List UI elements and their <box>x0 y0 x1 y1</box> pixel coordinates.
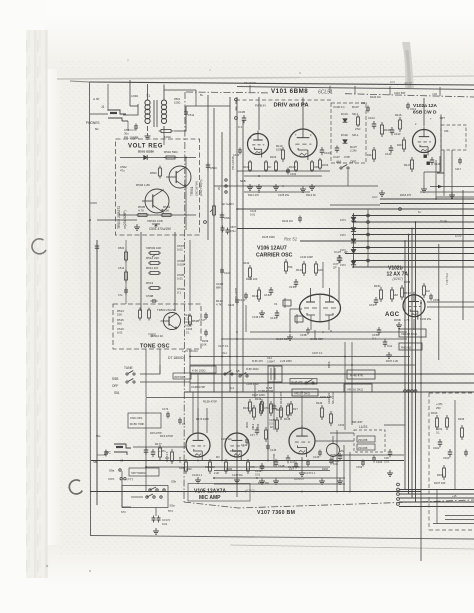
label C137 2P <box>334 250 348 254</box>
capacitor C157 <box>369 297 378 307</box>
wire top join t1 <box>195 90 197 106</box>
wire v107 down <box>301 457 303 470</box>
svg-text:C15B: C15B <box>433 298 440 302</box>
switch S51b <box>126 381 128 383</box>
ladder terminals <box>367 208 402 262</box>
ground v107 <box>301 470 303 473</box>
svg-text:56K: 56K <box>288 265 293 269</box>
resistor R114 <box>367 147 376 162</box>
svg-text:J1: J1 <box>101 105 105 109</box>
top scan smudge line <box>57 68 474 79</box>
capacitor P1 <box>184 110 195 118</box>
tube V106 <box>300 288 341 330</box>
label V106 12AU7 <box>256 246 293 259</box>
capacitor mid gap <box>299 216 301 219</box>
wire V101b plate up <box>302 98 304 127</box>
wire bundle h1 <box>399 489 474 491</box>
capacitor C131 <box>239 293 248 303</box>
wire y433 row <box>330 432 354 434</box>
tube V102a <box>413 130 436 153</box>
wire L join <box>436 490 438 524</box>
terminal circles bundle top <box>404 390 417 393</box>
ground v105b <box>236 477 238 480</box>
capacitor M1 <box>104 450 108 457</box>
wire vertical x230 <box>229 97 231 392</box>
ground V102a <box>423 186 425 189</box>
resistor R162 <box>261 399 270 414</box>
label R515 <box>117 318 124 326</box>
capacitor C520 <box>95 243 100 251</box>
wire jack to tube <box>133 446 186 448</box>
label G1 <box>186 327 193 335</box>
ground V101a <box>258 184 260 187</box>
resistor ladder-left 1 <box>118 246 128 263</box>
label C506 <box>177 259 185 267</box>
svg-text:DT 1800Ω: DT 1800Ω <box>168 356 184 360</box>
svg-text:TUNE: TUNE <box>124 366 133 370</box>
tube V107 <box>289 428 315 454</box>
resistor R141 <box>280 405 283 420</box>
wire mic vert x207 <box>206 408 208 433</box>
wire bottom bus 4 <box>91 491 421 493</box>
ground I2 <box>275 478 277 481</box>
wire ladder left rail <box>140 232 142 311</box>
label mid gap 1 <box>250 209 257 217</box>
wire sect bus 5 <box>184 391 474 393</box>
svg-text:CARRIER OSC: CARRIER OSC <box>256 253 293 259</box>
wire bottom bus 2 <box>146 466 330 468</box>
svg-text:C503: C503 <box>210 166 217 170</box>
box VR102 5KB <box>292 389 318 396</box>
box VR106 5KB <box>399 329 426 337</box>
wire carrier down 1 <box>344 342 346 430</box>
label V105 12AX7A MIC AMP <box>194 489 226 502</box>
wire t1 down <box>163 131 165 145</box>
capacitor C171 <box>144 447 167 455</box>
wire agc bus 5 <box>352 221 474 223</box>
label right small <box>436 402 442 410</box>
capacitor I2 <box>266 444 277 453</box>
label R514 <box>117 309 124 317</box>
capacitor tone right 2 <box>204 330 208 337</box>
ground A3 <box>311 184 313 187</box>
wire jack to T1 <box>123 104 138 115</box>
wire s3 area <box>131 496 143 498</box>
ground I1 <box>261 478 263 481</box>
resistor R106 <box>319 158 329 170</box>
wire sect bus 4 <box>190 382 474 384</box>
switch H2 <box>305 382 307 384</box>
schematic border bottom dash-dot <box>184 500 474 508</box>
ground T1 <box>147 133 149 136</box>
node v101a <box>258 175 260 177</box>
switch S51a <box>126 373 128 375</box>
capacitor C138 <box>333 255 342 270</box>
resistor R117 <box>404 157 414 172</box>
wire carrier bus 2 <box>222 338 407 340</box>
page top border line <box>70 81 474 85</box>
box VR101 5KB <box>344 384 372 392</box>
label I row <box>252 393 291 421</box>
capacitor C158 <box>429 294 440 303</box>
wire v102a right 1 <box>443 150 445 196</box>
scan speck 4 <box>209 69 211 71</box>
resistor R517 <box>148 308 150 311</box>
label C502 <box>120 165 127 173</box>
resistor R171 <box>159 445 161 448</box>
capacitor C3a <box>152 516 171 523</box>
wire phones up <box>90 113 108 115</box>
capacitor C147 <box>286 455 296 464</box>
label V101 pins <box>250 134 312 140</box>
page bottom border line <box>91 536 474 540</box>
wire br box <box>454 400 456 490</box>
label R504 1.5K <box>163 205 171 213</box>
resistor R551 120ohm <box>159 130 174 140</box>
svg-text:470u: 470u <box>230 230 236 233</box>
resistor R152 <box>391 287 399 302</box>
svg-text:50u: 50u <box>96 434 101 438</box>
wire v102a cath bus <box>424 156 440 172</box>
wire vreg mid <box>119 214 196 216</box>
label mid gap 2 <box>282 219 293 223</box>
wire v107 col 1 <box>336 430 338 491</box>
svg-text:C123: C123 <box>250 209 257 213</box>
tube V102b <box>403 295 425 317</box>
top border stubs <box>250 85 440 96</box>
label VR5 500K <box>129 468 159 476</box>
wire agc bus 2 <box>380 203 474 205</box>
label R505 4.7K <box>138 205 146 213</box>
resistor R103 <box>270 155 278 172</box>
resistor R154 <box>423 283 430 298</box>
svg-text:C122: C122 <box>228 303 235 307</box>
wire box to c3 <box>155 508 157 517</box>
box K-56 100 <box>190 366 216 373</box>
svg-text:OFF: OFF <box>112 384 118 388</box>
mic amp label box <box>188 484 250 502</box>
bottom faint fold line <box>230 545 474 549</box>
node A1 <box>258 191 260 193</box>
ground A2 <box>275 184 277 187</box>
terminal x236 a <box>235 98 238 101</box>
resistor R110 <box>276 144 285 162</box>
wire right h2 <box>427 306 474 308</box>
svg-text:R124 1M: R124 1M <box>282 219 293 223</box>
wire v101 mid2 <box>237 170 330 172</box>
tube V101b <box>289 129 317 157</box>
wire vertical x130 top <box>129 80 131 106</box>
node F <box>213 331 238 366</box>
capacitor C102 <box>286 168 297 177</box>
svg-text:Rcc 51: Rcc 51 <box>284 237 297 242</box>
wire right low 2 <box>445 519 474 521</box>
label R107 2.2M <box>350 145 357 153</box>
wire v106 top <box>322 262 324 288</box>
svg-text:SSB: SSB <box>112 377 118 381</box>
svg-text:to SP: to SP <box>93 97 100 101</box>
wire vox v2 <box>273 366 275 430</box>
wire v102a down <box>423 172 425 186</box>
resistor R161 <box>243 399 252 414</box>
resistor R181 <box>179 459 188 474</box>
wire switch runs 2 <box>140 382 190 383</box>
resistor R151 <box>374 284 383 302</box>
wire v101 mid <box>244 175 322 177</box>
capacitor V107 c2 <box>306 460 310 467</box>
svg-text:R167 33K: R167 33K <box>434 481 446 485</box>
label V102b 12AX7A <box>387 266 409 278</box>
label TR501 2SC367 <box>190 179 203 196</box>
capacitor ladder-left 3 <box>118 288 128 298</box>
resistor R163 <box>431 411 439 430</box>
switch H1 <box>224 373 226 375</box>
wire tone to bus 3 <box>189 349 191 392</box>
filter box L1 <box>354 430 385 452</box>
page left border wire <box>90 82 91 536</box>
jack J3 mic <box>114 444 131 455</box>
wire mic down <box>122 471 131 507</box>
resistor R164 <box>446 415 449 430</box>
label row under V105b <box>226 468 249 477</box>
wire agc bus 12 <box>352 266 474 268</box>
resistor R511 <box>146 266 161 275</box>
component blobs v102a <box>424 155 430 165</box>
ground D1 <box>289 334 291 337</box>
wire vertical x463 <box>462 190 464 320</box>
wire x255 mid <box>254 383 256 397</box>
junction dots row <box>213 460 351 493</box>
terminal circles bundle bottom <box>397 483 400 505</box>
wire vox h <box>240 391 292 393</box>
resistor I1 <box>253 405 256 420</box>
box R-46 47K b <box>290 379 317 385</box>
ground B1 <box>381 190 383 193</box>
pot AF GAIN terminals <box>218 179 227 193</box>
label R1 <box>340 219 346 267</box>
wire agc bus 10 <box>345 253 474 255</box>
capacitor C151 <box>384 449 392 464</box>
svg-text:B+: B+ <box>200 93 204 97</box>
punch hole mark upper <box>32 239 46 254</box>
capacitor F1 <box>220 268 231 276</box>
label G2 <box>202 339 209 347</box>
svg-text:T1: T1 <box>146 94 150 98</box>
svg-text:10K: 10K <box>318 268 323 272</box>
ground E1 <box>398 322 400 325</box>
wire v106 to bus <box>314 330 316 339</box>
tube V101a <box>248 134 269 155</box>
resistor R146 <box>265 427 268 442</box>
label vox r <box>246 367 259 386</box>
wire v102a plate col <box>437 115 445 174</box>
wire right seg 1 <box>430 186 474 188</box>
capacitor C116 <box>430 157 441 166</box>
resistor R516 <box>139 308 141 311</box>
label L row <box>436 417 465 435</box>
capacitor N1 <box>162 407 170 419</box>
label T1 <box>131 94 150 98</box>
ground c3 <box>155 528 157 531</box>
capacitor C108 <box>238 110 246 129</box>
svg-text:R136 22K: R136 22K <box>246 277 258 281</box>
schematic border left dash-dot <box>184 92 185 502</box>
svg-text:PB-1984B: PB-1984B <box>244 81 256 85</box>
capacitor V107 c1 <box>289 462 298 472</box>
wire v107 col 3 <box>349 452 351 491</box>
resistor R153 <box>401 285 412 300</box>
capacitor C148 <box>274 459 285 468</box>
wire agc bus 3 <box>237 208 474 210</box>
wire v106 left <box>290 309 302 332</box>
potentiometer VR503 <box>146 246 161 257</box>
label C168 <box>184 320 193 328</box>
wire mic link <box>97 454 106 456</box>
dashed box bottom right <box>429 393 474 530</box>
wire sect bus 2 <box>190 364 415 366</box>
ground J1 <box>321 478 323 481</box>
diode ladder D103-D107 <box>351 217 356 265</box>
resistor R513 <box>146 281 161 290</box>
capacitor C162 <box>433 439 442 450</box>
capacitor tone right 1 <box>199 313 208 323</box>
label S9a <box>109 469 121 473</box>
svg-text:X1: X1 <box>274 302 278 306</box>
resistor R142 <box>270 401 278 416</box>
capacitor C41 <box>383 339 393 348</box>
wire vreg left down <box>97 219 137 221</box>
wire x439 <box>438 244 440 360</box>
wire x190 ladder <box>189 240 191 311</box>
wire left rail a <box>96 240 98 505</box>
transistor TR503 tone osc <box>164 313 181 330</box>
box R60 <box>399 343 422 350</box>
wire V101a plate up <box>258 97 260 130</box>
capacitor C505r <box>221 226 237 235</box>
svg-text:R132: R132 <box>243 261 250 265</box>
wire bundle v3 <box>411 229 413 499</box>
wire sect bus 1 <box>190 356 410 358</box>
capacitor C3b <box>157 516 168 527</box>
svg-text:0.01: 0.01 <box>250 213 256 217</box>
resistor R172 <box>165 449 174 464</box>
label row under V107 <box>258 466 329 485</box>
wire v106 to bus2 <box>330 330 332 332</box>
relay box <box>266 366 282 390</box>
potentiometer VR501 <box>147 219 163 228</box>
capacitor C159 <box>372 327 381 341</box>
page top border line 2 <box>237 87 474 90</box>
svg-text:R131: R131 <box>252 294 259 298</box>
label C510 <box>117 327 124 335</box>
wire v107 top <box>301 396 303 428</box>
ground K1 <box>389 470 391 473</box>
capacitor C103 <box>320 147 331 155</box>
label C106 <box>333 105 345 109</box>
ground A1 <box>249 184 251 187</box>
capacitor C504 <box>220 212 231 220</box>
capacitor L1 <box>464 450 468 457</box>
capacitor K1 <box>356 460 365 470</box>
label VOX <box>108 477 122 481</box>
terminal x205 <box>204 221 207 224</box>
wire v102a right 2 <box>451 150 453 199</box>
capacitor C107 <box>333 146 350 160</box>
wire T1 right <box>174 106 196 131</box>
wire right seg 2 <box>420 191 474 193</box>
svg-text:R165: R165 <box>437 473 444 477</box>
wire mic vert x146 <box>145 398 147 492</box>
wire agc bus 11 <box>352 260 474 262</box>
wire sect bus 6 <box>146 397 330 399</box>
wire right seg 3 <box>436 196 474 198</box>
scan speck 1 <box>46 565 48 567</box>
resistor R133 <box>296 261 306 276</box>
wire ladder col 1 <box>353 213 355 268</box>
svg-text:C131: C131 <box>239 298 246 302</box>
svg-text:V106 12AU7: V106 12AU7 <box>257 246 287 252</box>
wire v107 to filter <box>315 440 354 442</box>
scan speck 5 <box>89 570 91 572</box>
label row under V105a <box>179 456 219 477</box>
arrow right seg <box>438 185 443 189</box>
wire carrier bus 1 <box>250 331 407 333</box>
label misc mid <box>216 299 223 307</box>
wire bundle h3 <box>399 497 474 499</box>
capacitor C104 <box>368 116 376 129</box>
capacitor C101 <box>233 148 242 158</box>
wire vreg inner rail <box>185 158 187 231</box>
transistor TR501 <box>169 166 191 188</box>
wire bundle h2 <box>399 493 474 495</box>
label C504b <box>177 287 185 295</box>
label L2 <box>434 481 457 498</box>
scan speck 2 <box>299 72 301 74</box>
junction dots bus <box>145 208 422 492</box>
wire jack top <box>107 84 109 111</box>
punch hole mark lower <box>69 480 82 494</box>
ground agc <box>388 352 390 355</box>
svg-text:R501: R501 <box>174 97 181 101</box>
svg-text:5?4: 5?4 <box>168 509 173 513</box>
resistor R165 <box>437 465 446 480</box>
wire v107 col 2 <box>343 445 345 491</box>
label C164 <box>184 313 191 321</box>
wire rail top join <box>90 202 97 204</box>
svg-text:S51: S51 <box>114 391 120 395</box>
wire vertical x214 <box>213 108 215 392</box>
capacitor K2 <box>372 456 383 465</box>
diode D102 <box>341 133 359 143</box>
diode D101 <box>341 112 359 122</box>
node M <box>90 460 147 493</box>
resistor R108 27ohm <box>355 115 361 131</box>
resistor I2 <box>270 417 279 432</box>
resistor R518 <box>189 314 200 327</box>
wire vertical x237 <box>236 97 238 497</box>
capacitor N2 <box>178 418 186 427</box>
resistor R115 <box>397 137 406 152</box>
wire bottom bus 1 <box>91 460 404 462</box>
tube V105b <box>225 433 249 457</box>
wire ladder col 2 <box>367 209 369 267</box>
capacitor C149 <box>255 463 264 477</box>
wire V102a plate up <box>423 98 425 126</box>
svg-text:CR?: CR? <box>440 116 446 120</box>
resistor R512 <box>146 256 161 265</box>
node A2 <box>282 185 284 187</box>
capacitor C172 <box>151 449 169 462</box>
